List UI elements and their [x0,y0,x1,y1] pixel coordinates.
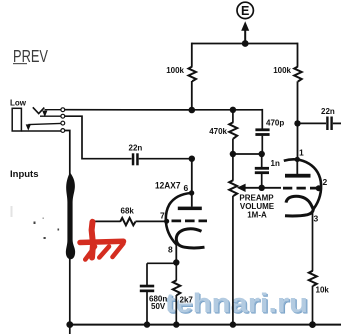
contact circle 4 [61,129,65,133]
jack connector body [12,108,21,131]
node 470k top [230,107,236,113]
wire cathode to bypass cap [147,262,176,264]
svg-text:68k: 68k [121,207,135,216]
node divider right [259,151,265,157]
wire 470p upper [261,109,263,129]
wire input top rail to plate node [65,109,192,111]
svg-text:Low: Low [10,99,27,108]
resistor 470k [209,122,237,139]
wire anode V1a [191,159,193,207]
node rail 2k7 [173,321,179,327]
wire contact4 down left rail [65,131,70,334]
wire 1n upper [261,154,263,167]
wire left plate branch upper [191,43,193,67]
node plate2 junction [294,120,300,126]
wire bypass cap upper [146,263,148,285]
node grid entry dot V1a [164,219,169,224]
wire right plate branch lower [297,81,299,160]
node rail left [66,321,73,328]
node cathode junction [173,259,179,265]
svg-text:6: 6 [184,183,189,193]
node plate1 junction [189,107,196,114]
capacitor 680n 50V [140,285,168,311]
wire left plate branch lower [191,81,193,110]
svg-text:12AX7: 12AX7 [155,181,181,192]
cathode V1a [176,229,204,248]
svg-text:1n: 1n [271,159,280,168]
svg-text:8: 8 [168,245,173,255]
wire plate V1b to anode [296,159,298,174]
wire coupling rail [192,109,262,111]
capacitor 470p [255,119,284,136]
node grid envelope dot V1b pin2 [316,185,322,191]
wire bypass cap lower [146,292,148,325]
wire top rail [192,43,298,45]
wire cathode resistor upper [175,263,177,281]
wire 470k lower [232,139,234,155]
wire 1n lower [261,174,263,188]
node envelope crossing V1b [295,157,300,162]
wire arrow to E [241,21,249,47]
svg-text:10k: 10k [316,286,330,295]
wire wiper to grid [245,187,282,189]
cathode V1b [285,196,313,216]
specks [11,206,60,239]
wire 10k lower [312,286,314,325]
underline under PR [13,63,27,64]
node anode wire junction [189,156,195,162]
node rail 10k [309,321,316,328]
grid dashes V1b [283,187,317,190]
resistor 68k [120,207,135,226]
wire cathode resistor lower [175,295,177,325]
anode plate bar V1b [285,174,311,178]
op envelope triode V1b [284,159,321,208]
wire tip to contact 1 [45,109,61,111]
op envelope triode V1a [166,193,191,244]
wire ground rail [70,324,341,326]
ground (red hand-drawn) [80,222,124,260]
contact circle 3 [61,121,65,125]
contact circle 2 [61,114,65,118]
svg-text:22n: 22n [129,144,143,153]
wire grid stopper left [93,220,121,222]
node 1n to wiper junction [259,185,265,191]
node rail 680n [144,321,150,327]
node divider left [230,151,236,157]
svg-text:100k: 100k [166,66,184,75]
wire grid stopper right [136,220,168,222]
wire 470p lower [261,136,263,154]
svg-text:100k: 100k [273,66,291,75]
node envelope crossing V1a [189,190,194,195]
svg-text:2: 2 [323,177,328,187]
svg-text:470p: 470p [266,119,284,128]
svg-text:1M-A: 1M-A [247,211,267,220]
svg-text:7: 7 [160,211,165,221]
wire cathode lead V1a [175,243,177,263]
node E supply circle [237,2,253,18]
svg-text:50V: 50V [151,302,166,311]
resistor 2k7 [173,280,194,304]
wire divider rail [233,153,262,155]
wire jack sleeve line [21,130,61,132]
wire output right edge [333,122,341,124]
wire contact2 left stub [40,115,61,117]
svg-text:3: 3 [314,214,319,224]
contact circle 1 [61,108,65,112]
svg-text:2k7: 2k7 [180,296,194,305]
svg-text:1: 1 [299,148,304,158]
svg-text:470k: 470k [209,127,227,136]
capacitor 22n left [129,144,143,166]
resistor 10k [309,271,330,295]
resistor 100k right [273,66,301,82]
resistor 100k left [166,66,196,81]
wire cap 22n to plate line [139,158,192,160]
anode plate bar V1a [178,207,202,211]
wire cathode V1b to 10k [312,210,314,271]
svg-text:22n: 22n [321,107,335,116]
svg-text:E: E [241,4,249,18]
hand-drawn thick marker stroke [66,173,75,260]
potentiometer PREAMP VOLUME 1M-A [229,154,275,325]
watermark tehnari.ru [165,288,311,321]
node rail pot [230,321,236,327]
wire to output cap [298,122,327,124]
wire contact2 to cap 22n [65,116,132,159]
capacitor 1n [255,159,280,174]
jack switch arm arrow [26,123,61,130]
svg-text:Inputs: Inputs [10,169,39,180]
jack tip contact [33,107,48,117]
capacitor 22n output [321,107,335,130]
grid dashes V1a [172,220,208,223]
wire 470k upper [232,110,234,123]
wire right plate branch upper [297,43,299,67]
